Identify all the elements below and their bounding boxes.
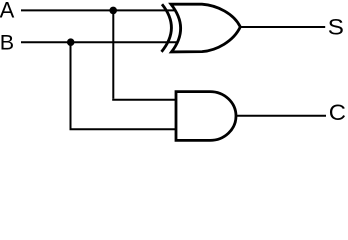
- XOR gate U1 extra input arc: [162, 4, 172, 52]
- wire AND output to C: [236, 115, 326, 117]
- junction dot on B: [67, 38, 75, 46]
- junction dot on A: [109, 7, 117, 15]
- XOR gate U1 body: [171, 4, 240, 52]
- AND gate U2 body: [176, 92, 236, 141]
- wire horizontal into AND bottom input: [70, 128, 179, 130]
- wire horizontal into AND top input: [112, 99, 178, 101]
- wire XOR output to S: [240, 26, 325, 28]
- wire B horizontal into XOR: [21, 41, 178, 43]
- wire A horizontal into XOR: [21, 9, 177, 11]
- svg-text:S: S: [328, 15, 344, 40]
- wire from A dot down: [112, 10, 114, 98]
- svg-text:A: A: [0, 0, 15, 23]
- wire from B dot down: [70, 42, 72, 129]
- svg-text:C: C: [329, 100, 346, 125]
- svg-text:B: B: [0, 31, 14, 55]
